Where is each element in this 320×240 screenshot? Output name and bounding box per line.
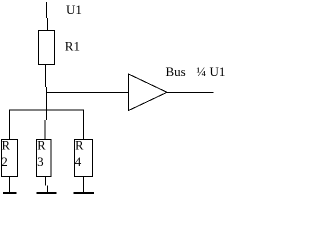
op-amp buffer U1 — [129, 74, 168, 111]
ground G3 — [74, 192, 94, 194]
wire drop to R2 — [9, 110, 11, 140]
wire R2 bottom pin — [9, 177, 11, 193]
svg-text:R: R — [75, 138, 84, 152]
svg-text:2: 2 — [1, 154, 8, 169]
svg-text:R1: R1 — [65, 38, 80, 53]
wire junction to buffer input — [46, 92, 129, 94]
svg-text:¼: ¼ — [196, 64, 206, 79]
wire buffer output — [167, 92, 214, 94]
svg-text:3: 3 — [37, 154, 44, 169]
svg-text:R: R — [37, 138, 46, 152]
resistor R4 — [75, 140, 93, 177]
resistor R3 — [37, 140, 52, 177]
ground G2 — [36, 192, 56, 194]
wire main vertical to bus — [45, 93, 47, 140]
svg-text:U1: U1 — [210, 64, 226, 79]
wire R1 bottom pin — [46, 65, 47, 94]
ground G1 — [3, 192, 16, 194]
wire drop to R4 — [83, 110, 85, 140]
wire bus horizontal — [9, 109, 84, 111]
resistor R1 — [39, 31, 55, 65]
wire U1 top pin — [47, 2, 48, 30]
svg-text:4: 4 — [75, 154, 82, 169]
resistor R2 — [2, 140, 18, 177]
svg-text:U1: U1 — [66, 2, 82, 17]
svg-text:R: R — [2, 138, 11, 152]
svg-text:Bus: Bus — [166, 64, 186, 79]
wire R4 bottom pin — [83, 177, 85, 193]
wire R3 bottom pin — [46, 177, 48, 193]
